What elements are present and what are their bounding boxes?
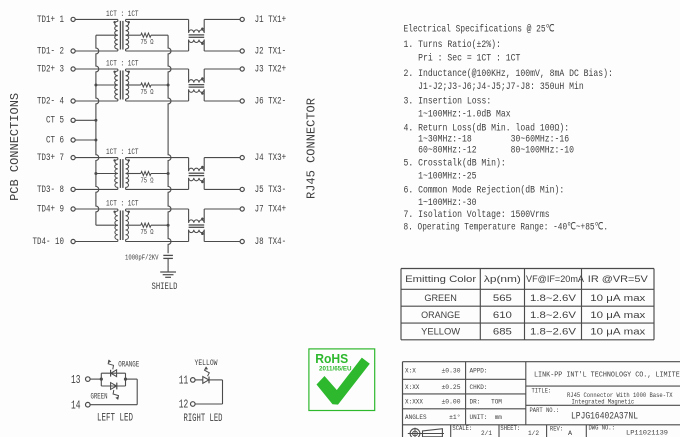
svg-text:1/2: 1/2 bbox=[528, 430, 539, 437]
svg-text:J4 TX3+: J4 TX3+ bbox=[255, 152, 287, 163]
svg-text:TD2+ 3: TD2+ 3 bbox=[37, 63, 64, 74]
svg-text:5. Crosstalk(dB Min):: 5. Crosstalk(dB Min): bbox=[404, 158, 506, 170]
svg-text:UNIT: mm: UNIT: mm bbox=[470, 414, 502, 421]
svg-text:CHKD:: CHKD: bbox=[470, 384, 488, 391]
svg-text:RJ45 CONNECTOR: RJ45 CONNECTOR bbox=[305, 98, 319, 199]
svg-text:565: 565 bbox=[493, 293, 512, 303]
svg-text:685: 685 bbox=[493, 327, 512, 337]
svg-text:1CT : 1CT: 1CT : 1CT bbox=[106, 59, 139, 68]
svg-text:X:XXX: X:XXX bbox=[405, 399, 423, 406]
svg-text:J2 TX1-: J2 TX1- bbox=[255, 45, 287, 56]
svg-text:1.8~2.6V: 1.8~2.6V bbox=[530, 327, 577, 337]
svg-text:TD1- 2: TD1- 2 bbox=[37, 45, 64, 56]
svg-text:GREEN: GREEN bbox=[424, 293, 457, 303]
svg-text:RoHS: RoHS bbox=[315, 351, 348, 366]
svg-text:1.8~2.6V: 1.8~2.6V bbox=[530, 293, 577, 303]
svg-text:75 Ω: 75 Ω bbox=[141, 178, 155, 186]
svg-text:LP11021139: LP11021139 bbox=[626, 430, 668, 437]
svg-text:IR @VR=5V: IR @VR=5V bbox=[588, 274, 649, 284]
svg-text:1CT : 1CT: 1CT : 1CT bbox=[106, 148, 139, 157]
svg-text:J8 TX4-: J8 TX4- bbox=[255, 236, 287, 247]
svg-text:TITLE:: TITLE: bbox=[532, 388, 552, 395]
svg-text:7. Isolation Voltage: 1500Vrms: 7. Isolation Voltage: 1500Vrms bbox=[404, 209, 550, 221]
svg-text:10 μA max: 10 μA max bbox=[590, 293, 645, 303]
svg-text:TD3- 8: TD3- 8 bbox=[37, 184, 64, 195]
svg-text:2011/65/EU: 2011/65/EU bbox=[319, 366, 352, 373]
svg-text:SCALE:: SCALE: bbox=[452, 425, 472, 432]
svg-text:Pri : Sec = 1CT : 1CT: Pri : Sec = 1CT : 1CT bbox=[404, 53, 521, 65]
svg-text:1CT : 1CT: 1CT : 1CT bbox=[106, 10, 139, 19]
svg-text:DR: TOM: DR: TOM bbox=[470, 399, 502, 406]
svg-text:J5 TX3-: J5 TX3- bbox=[255, 184, 287, 195]
svg-text:±1°: ±1° bbox=[449, 413, 460, 421]
svg-text:12: 12 bbox=[179, 399, 189, 412]
svg-text:11: 11 bbox=[179, 375, 189, 388]
svg-text:ANGLES: ANGLES bbox=[405, 414, 427, 421]
svg-text:2/1: 2/1 bbox=[481, 430, 492, 437]
svg-text:Emitting Color: Emitting Color bbox=[405, 274, 476, 284]
svg-text:X:XX: X:XX bbox=[405, 384, 419, 391]
svg-text:SHEET:: SHEET: bbox=[500, 425, 520, 432]
svg-text:2. Inductance(@100KHz, 100mV,: 2. Inductance(@100KHz, 100mV, 8mA DC Bia… bbox=[404, 68, 613, 80]
svg-text:J1 TX1+: J1 TX1+ bbox=[255, 14, 287, 25]
svg-text:6. Common Mode Rejection(dB Mi: 6. Common Mode Rejection(dB Min): bbox=[404, 184, 565, 196]
svg-text:TD4+ 9: TD4+ 9 bbox=[37, 203, 64, 214]
svg-text:1. Turns Ratio(±2%):: 1. Turns Ratio(±2%): bbox=[404, 39, 501, 51]
svg-text:3. Insertion Loss:: 3. Insertion Loss: bbox=[404, 96, 492, 108]
svg-text:14: 14 bbox=[71, 400, 81, 413]
svg-text:610: 610 bbox=[493, 310, 512, 320]
svg-text:75 Ω: 75 Ω bbox=[141, 39, 155, 47]
svg-text:LEFT LED: LEFT LED bbox=[97, 412, 133, 424]
svg-text:10 μA max: 10 μA max bbox=[590, 310, 645, 320]
svg-text:GREEN: GREEN bbox=[91, 393, 108, 402]
svg-text:60~80MHz:-12 80~100MHz:-: 60~80MHz:-12 80~100MHz:-10 bbox=[404, 144, 575, 156]
svg-text:VF@IF=20mA: VF@IF=20mA bbox=[526, 274, 585, 284]
svg-text:8. Operating Temperature Range: 8. Operating Temperature Range: -40℃~+85… bbox=[404, 222, 609, 234]
svg-text:ORANGE: ORANGE bbox=[421, 310, 460, 320]
svg-text:13: 13 bbox=[71, 374, 81, 387]
svg-text:1~100MHz:-30: 1~100MHz:-30 bbox=[404, 197, 477, 209]
svg-text:REV:: REV: bbox=[550, 425, 563, 432]
svg-text:75 Ω: 75 Ω bbox=[141, 89, 155, 97]
svg-text:CT 5: CT 5 bbox=[46, 115, 64, 126]
svg-text:LPJG16402A37NL: LPJG16402A37NL bbox=[571, 412, 638, 423]
svg-text:±0.25: ±0.25 bbox=[442, 384, 461, 391]
svg-text:PCB CONNECTIONS: PCB CONNECTIONS bbox=[8, 93, 22, 201]
svg-text:1~100MHz:-25: 1~100MHz:-25 bbox=[404, 171, 477, 183]
svg-text:SHIELD: SHIELD bbox=[152, 281, 178, 293]
svg-text:TD1+ 1: TD1+ 1 bbox=[37, 14, 64, 25]
svg-text:RIGHT LED: RIGHT LED bbox=[184, 413, 223, 425]
svg-text:YELLOW: YELLOW bbox=[421, 327, 460, 337]
svg-text:YELLOW: YELLOW bbox=[195, 359, 218, 368]
svg-text:±0.30: ±0.30 bbox=[442, 368, 461, 375]
svg-text:1CT : 1CT: 1CT : 1CT bbox=[106, 199, 139, 208]
svg-text:TD4- 10: TD4- 10 bbox=[33, 236, 65, 247]
svg-text:1.8~2.6V: 1.8~2.6V bbox=[530, 310, 577, 320]
svg-text:PART NO.:: PART NO.: bbox=[530, 407, 560, 414]
svg-text:CT 6: CT 6 bbox=[46, 134, 64, 145]
svg-text:A: A bbox=[568, 430, 573, 437]
svg-text:1~100MHz:-1.0dB Max: 1~100MHz:-1.0dB Max bbox=[404, 109, 511, 121]
svg-text:J7 TX4+: J7 TX4+ bbox=[255, 203, 287, 214]
svg-text:TD2- 4: TD2- 4 bbox=[37, 95, 64, 106]
svg-text:X:X: X:X bbox=[405, 368, 416, 375]
svg-text:λp(nm): λp(nm) bbox=[484, 274, 521, 284]
svg-text:DWG NO.:: DWG NO.: bbox=[589, 425, 615, 432]
svg-text:J1-J2;J3-J6;J4-J5;J7-J8: 350uH: J1-J2;J3-J6;J4-J5;J7-J8: 350uH Min bbox=[404, 81, 584, 93]
svg-text:LINK-PP INT'L TECHNOLOGY CO.,: LINK-PP INT'L TECHNOLOGY CO., LIMITED bbox=[534, 372, 680, 380]
svg-text:75 Ω: 75 Ω bbox=[141, 229, 155, 237]
svg-text:TD3+ 7: TD3+ 7 bbox=[37, 152, 64, 163]
svg-text:Integrated Magnetic: Integrated Magnetic bbox=[572, 398, 635, 405]
svg-text:10 μA max: 10 μA max bbox=[590, 327, 645, 337]
svg-text:Electrical Specifications @ 25: Electrical Specifications @ 25℃ bbox=[404, 24, 555, 36]
svg-text:APPD:: APPD: bbox=[470, 368, 488, 375]
svg-text:J3 TX2+: J3 TX2+ bbox=[255, 63, 287, 74]
svg-text:±0.00: ±0.00 bbox=[442, 399, 461, 406]
svg-text:ORANGE: ORANGE bbox=[118, 361, 139, 370]
svg-text:J6 TX2-: J6 TX2- bbox=[255, 95, 287, 106]
svg-text:1000pF/2KV: 1000pF/2KV bbox=[125, 255, 159, 263]
